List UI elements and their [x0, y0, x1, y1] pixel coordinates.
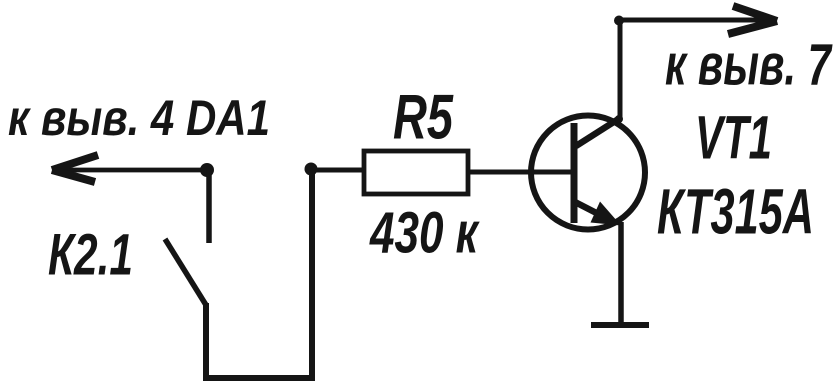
- resistor R5 body: [364, 151, 468, 194]
- switch K2.1 fixed contact stub: [206, 170, 212, 243]
- svg-text:430 к: 430 к: [369, 201, 480, 266]
- wire: collector up and right to pin 7: [620, 20, 774, 117]
- svg-text:КТ315А: КТ315А: [657, 176, 814, 248]
- transistor VT1 emitter arrowhead: [591, 202, 622, 226]
- svg-text:R5: R5: [393, 83, 454, 153]
- wire: horizontal lead to DA1 pin 4 arrow: [55, 168, 208, 173]
- svg-text:К2.1: К2.1: [48, 223, 133, 288]
- transistor VT1 body circle: [531, 116, 645, 230]
- ground bar: [591, 322, 649, 328]
- node B: junction of switch return and resistor lead: [305, 163, 318, 176]
- wire: node B to resistor R5: [311, 168, 364, 173]
- arrowhead (to к выв. 7): [728, 6, 777, 34]
- svg-text:к выв. 4 DA1: к выв. 4 DA1: [8, 90, 270, 146]
- transistor VT1 base bar: [571, 123, 578, 223]
- transistor VT1 emitter stroke: [575, 202, 612, 221]
- wire: emitter down to ground: [618, 222, 624, 327]
- arrowhead (to к выв. 4 DA1): [52, 155, 98, 182]
- transistor VT1 collector stroke: [576, 118, 620, 146]
- wire: resistor R5 to transistor base: [470, 170, 572, 175]
- switch K2.1 movable blade: [165, 239, 206, 305]
- svg-text:к выв. 7: к выв. 7: [665, 33, 833, 98]
- svg-text:VT1: VT1: [695, 104, 772, 172]
- node A: junction of arrow wire and switch K2.1: [200, 163, 214, 177]
- wire: U-shaped return from switch blade to node B: [206, 172, 312, 378]
